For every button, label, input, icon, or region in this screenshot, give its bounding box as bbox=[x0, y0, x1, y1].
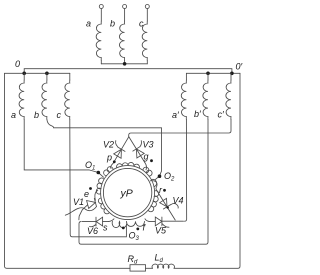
thyristor V3 bbox=[129, 137, 145, 163]
node a junction dot bbox=[22, 72, 26, 76]
tap O2 junction dot bbox=[158, 174, 162, 178]
V3 gate lead bbox=[140, 141, 142, 147]
svg-text:b: b bbox=[34, 110, 39, 120]
polarity dot g bbox=[150, 159, 153, 162]
svg-text:a: a bbox=[86, 19, 91, 29]
V5 gate lead bbox=[162, 224, 169, 227]
right secondary winding a' bbox=[185, 73, 187, 80]
svg-text:b: b bbox=[110, 19, 115, 29]
svg-text:Rd: Rd bbox=[128, 254, 139, 266]
svg-text:p: p bbox=[106, 153, 112, 163]
left secondary winding b bbox=[46, 73, 48, 80]
svg-text:O3: O3 bbox=[129, 231, 140, 243]
svg-text:c: c bbox=[139, 19, 144, 29]
primary winding c terminal bbox=[145, 5, 149, 9]
wire winding c' to V2/V3 cathode junction bbox=[129, 120, 231, 137]
wire winding a' down to V4/V5 junction bbox=[185, 120, 187, 222]
node c' junction dot bbox=[230, 72, 234, 76]
V4 crossing dot bbox=[167, 206, 169, 208]
V4 gate lead bbox=[171, 203, 179, 208]
primary winding b bbox=[124, 9, 126, 22]
node b' junction dot bbox=[206, 72, 210, 76]
left secondary winding c bbox=[69, 73, 71, 80]
svg-text:g: g bbox=[144, 152, 149, 162]
wire winding c to O3 bbox=[70, 120, 127, 237]
polarity dot e bbox=[89, 187, 92, 190]
primary winding a bbox=[100, 9, 102, 22]
svg-text:Ld: Ld bbox=[155, 253, 164, 265]
svg-text:b′: b′ bbox=[194, 109, 201, 119]
svg-text:O1: O1 bbox=[85, 160, 95, 172]
wire f lead bbox=[145, 219, 149, 222]
thyristor V4 bbox=[150, 181, 175, 220]
left secondary winding a bbox=[23, 73, 25, 80]
primary star bar bbox=[101, 63, 147, 65]
thyristor V6 bbox=[82, 221, 96, 223]
node b junction dot bbox=[45, 72, 49, 76]
svg-text:V4: V4 bbox=[173, 196, 184, 206]
svg-text:c: c bbox=[57, 110, 62, 120]
wire s lead bbox=[109, 219, 114, 222]
svg-text:e: e bbox=[84, 189, 89, 199]
svg-text:c′: c′ bbox=[218, 110, 225, 120]
svg-text:V5: V5 bbox=[155, 226, 167, 236]
thyristor V1 bbox=[95, 190, 98, 200]
svg-text:уР: уР bbox=[120, 188, 133, 200]
V1 gate lead bbox=[65, 207, 96, 215]
V6 gate lead bbox=[90, 225, 96, 227]
equalizing reactor ring inner circle bbox=[103, 168, 151, 216]
svg-text:0: 0 bbox=[15, 59, 20, 69]
svg-text:a: a bbox=[11, 110, 16, 120]
polarity dot p bbox=[113, 160, 116, 163]
tap O1 junction dot bbox=[97, 171, 101, 175]
svg-text:V3: V3 bbox=[143, 140, 154, 150]
polarity dot s bbox=[122, 227, 125, 230]
svg-text:V2: V2 bbox=[103, 140, 114, 150]
equalizing reactor ring outer circle bbox=[101, 166, 155, 220]
resistor Rd bbox=[130, 265, 146, 271]
right group neutral wire bbox=[186, 72, 240, 74]
V2 gate lead bbox=[116, 141, 118, 147]
wire V2 to winding p bbox=[111, 163, 114, 168]
outer loop left border / bottom / right border bbox=[5, 73, 131, 268]
wire winding b to O2 bbox=[47, 120, 162, 180]
svg-text:r: r bbox=[159, 185, 163, 195]
polarity dot f bbox=[136, 228, 139, 231]
primary winding a terminal bbox=[99, 5, 103, 9]
primary star junction dot bbox=[123, 62, 127, 66]
wire winding a to O1 bbox=[24, 120, 103, 178]
thyristor V5 bbox=[149, 220, 155, 222]
svg-text:V1: V1 bbox=[73, 197, 84, 207]
polarity dot r bbox=[163, 189, 166, 192]
inductor Ld bbox=[152, 264, 175, 268]
wire winding b' to bottom loop bbox=[79, 120, 208, 245]
svg-text:s: s bbox=[103, 223, 108, 233]
bus 0-0' bbox=[24, 69, 232, 74]
wire V3 to winding g bbox=[145, 163, 147, 170]
svg-text:0′: 0′ bbox=[236, 62, 243, 72]
primary winding c bbox=[146, 9, 148, 22]
right secondary winding b' bbox=[207, 73, 209, 80]
reactor winding scallops bbox=[96, 162, 158, 227]
right secondary winding c' bbox=[230, 73, 232, 80]
svg-text:f: f bbox=[143, 223, 147, 233]
svg-text:a′: a′ bbox=[172, 110, 179, 120]
primary winding b terminal bbox=[123, 5, 127, 9]
left group neutral wire bbox=[5, 72, 70, 74]
svg-text:O2: O2 bbox=[164, 171, 175, 183]
svg-text:V6: V6 bbox=[87, 226, 98, 236]
thyristor V2 bbox=[113, 137, 129, 163]
